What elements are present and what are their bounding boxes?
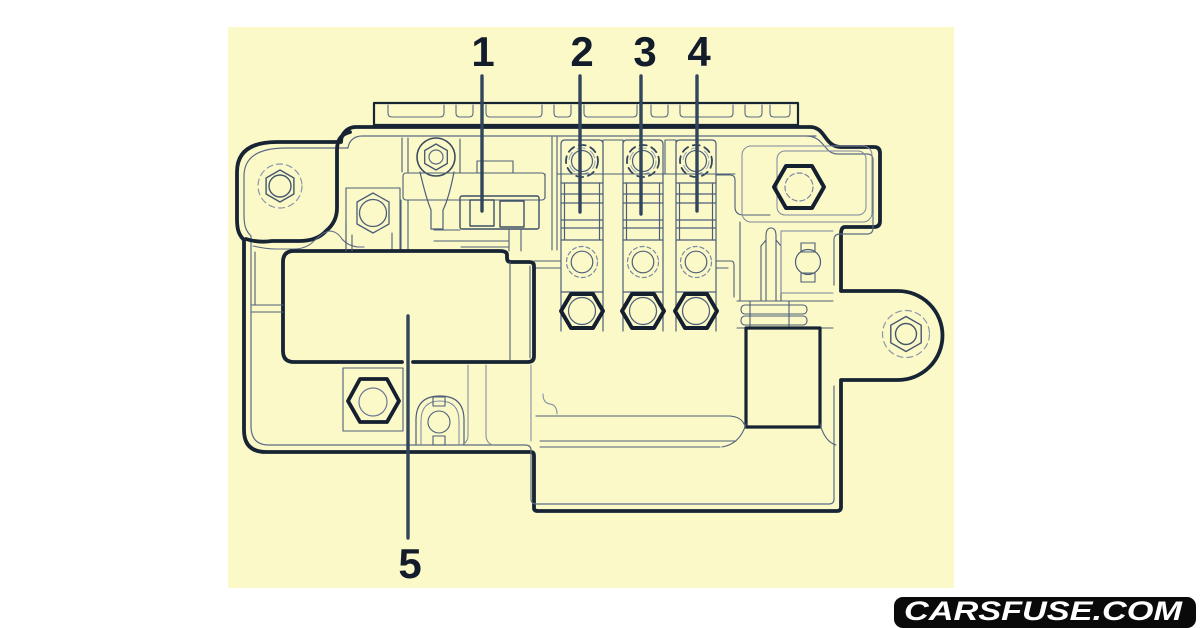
spinner panel (781, 231, 833, 293)
wave inner parallel line (253, 231, 364, 249)
plastic rib (761, 228, 781, 301)
background panel (228, 27, 954, 588)
left lobe wave (246, 132, 350, 242)
hex nut 2 (561, 294, 603, 328)
lower shelf lines (536, 416, 744, 447)
wires of component 1 (392, 138, 521, 251)
right hex bolt (774, 166, 824, 208)
grommet bolt (258, 164, 302, 208)
top comb strip (374, 103, 798, 125)
connector bridges between columns (557, 173, 735, 175)
svg-text:5: 5 (398, 540, 421, 587)
keyhole detail (416, 396, 464, 444)
cover box 5 (283, 251, 534, 362)
leader line 4 (695, 76, 698, 211)
fuse column 4 (676, 140, 716, 331)
leader line 5 (406, 316, 409, 538)
watermark badge (894, 597, 1196, 628)
hex nut 3 (622, 294, 664, 328)
leader line 3 (639, 76, 642, 214)
bottom hex bolt (348, 379, 399, 422)
hex bolt panel outer (742, 146, 872, 222)
svg-text:4: 4 (687, 28, 711, 75)
bottom hex bolt square (343, 368, 403, 431)
fuse column 2 (561, 140, 603, 331)
spinner bone (796, 250, 821, 275)
svg-text:2: 2 (570, 28, 593, 75)
main fuse box outline (237, 127, 943, 511)
ear bolt (883, 311, 930, 358)
hex nut 4 (675, 294, 717, 328)
deck wall lines (545, 137, 770, 301)
svg-text:CARSFUSE.COM: CARSFUSE.COM (904, 596, 1183, 626)
svg-text:3: 3 (633, 28, 656, 75)
relay box bottom right (746, 328, 820, 427)
leader line 1 (480, 76, 483, 211)
relay fillets (722, 424, 836, 447)
fuse column 3 (623, 140, 663, 331)
svg-text:1: 1 (471, 28, 494, 75)
bus links at mid circles (534, 261, 734, 297)
ring terminal teardrop (417, 138, 455, 176)
leader line 2 (578, 76, 581, 212)
bolt with square base (left) (346, 188, 400, 250)
left side small lines (252, 222, 352, 312)
component 1 block (403, 173, 545, 200)
inner wall contour (244, 136, 873, 504)
terminal slots block (737, 301, 833, 328)
